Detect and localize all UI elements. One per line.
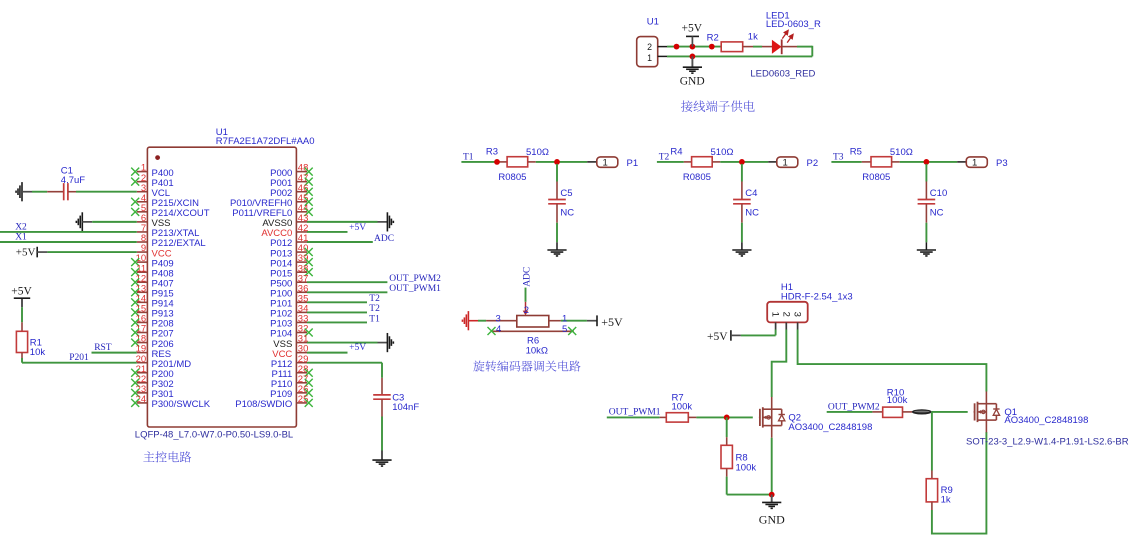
svg-text:C4: C4 — [745, 188, 757, 199]
U1 pin 21 P200 — [131, 364, 173, 380]
ground (C3) — [372, 417, 391, 467]
svg-text:510Ω: 510Ω — [890, 147, 913, 158]
wire R7 to Q2 gate — [688, 416, 753, 418]
potentiometer R6 body — [517, 316, 549, 328]
resistor R3 — [507, 157, 528, 167]
wire T1 to R3 — [461, 161, 507, 163]
U1 pin 47 P001 — [270, 173, 313, 189]
wire RST to RES pin19 — [92, 352, 137, 354]
svg-text:U1: U1 — [647, 17, 659, 28]
svg-text:LED0603_RED: LED0603_RED — [750, 68, 815, 79]
U1 pin 15 P913 — [131, 303, 173, 319]
junction node (R7/R8/gate) — [724, 415, 730, 421]
ground (C1 left) — [16, 182, 47, 201]
U1 pin 14 P914 — [131, 293, 173, 309]
wire Q2 source to ground — [771, 438, 773, 495]
svg-text:1: 1 — [782, 158, 787, 169]
svg-text:X2: X2 — [15, 222, 27, 232]
wire pin1 bottom run — [667, 55, 812, 57]
wire OUT_PWM2 to R10 — [827, 411, 883, 413]
connector P1 — [597, 157, 618, 169]
svg-text:100k: 100k — [887, 395, 908, 406]
U1 pin 19 RES — [136, 344, 171, 360]
U1 pin 34 P102 — [270, 303, 308, 319]
ground (C5) — [547, 223, 566, 256]
svg-text:X1: X1 — [15, 233, 27, 243]
resistor R9 — [926, 471, 937, 511]
svg-text:P1: P1 — [627, 158, 639, 169]
wire R1 to P201/MD pin20 — [22, 358, 137, 363]
U1 pin 3 VCL — [137, 183, 170, 199]
U1 pin 33 P103 — [270, 314, 308, 330]
U1 pin 20 P201/MD — [136, 354, 192, 370]
U1 pin 30 VCC — [272, 344, 308, 360]
ground (C10) — [917, 223, 936, 256]
net label T2 (pin35) — [307, 294, 380, 304]
wire +5V to R1 — [21, 307, 23, 322]
U1 pin 29 P112 — [271, 354, 309, 370]
U1 pin 35 P101 — [270, 293, 308, 309]
wire encoder pin3 — [478, 320, 517, 322]
svg-text:R5: R5 — [850, 147, 862, 158]
ground (VSS pin31) — [307, 333, 393, 352]
svg-text:1k: 1k — [748, 32, 758, 43]
svg-text:ADC: ADC — [522, 267, 532, 287]
U1 pin 26 P109 — [270, 384, 313, 400]
wire LED return loop — [811, 46, 813, 57]
svg-text:10k: 10k — [30, 347, 46, 358]
node X2 wire — [0, 231, 137, 233]
wire H1 pin3 to Q1 drain — [798, 330, 987, 392]
U1 pin 40 P013 — [270, 243, 313, 259]
U1 pin 27 P110 — [271, 374, 313, 390]
U1 pin 12 P407 — [131, 273, 173, 289]
ground (encoder, red) — [462, 311, 478, 330]
U1 pin 38 P015 — [270, 263, 313, 279]
svg-text:GND: GND — [680, 75, 705, 87]
svg-text:R3: R3 — [486, 147, 498, 158]
svg-text:OUT_PWM2: OUT_PWM2 — [389, 274, 441, 284]
svg-text:T1: T1 — [369, 314, 380, 324]
svg-text:R0805: R0805 — [862, 172, 890, 183]
+5V power flag (encoder) — [597, 315, 623, 329]
svg-text:104nF: 104nF — [392, 402, 419, 413]
net label X1 — [15, 233, 27, 243]
ground (VSS pin6) — [76, 212, 136, 231]
LED LED1 — [772, 31, 812, 55]
U1 pin 9 VCC — [137, 243, 172, 259]
svg-text:100k: 100k — [672, 401, 693, 412]
svg-text:OUT_PWM1: OUT_PWM1 — [389, 284, 441, 294]
svg-text:510Ω: 510Ω — [711, 147, 734, 158]
svg-text:100k: 100k — [736, 463, 757, 474]
net label ADC (encoder, vertical) — [522, 267, 532, 287]
U1 pin 45 P010/VREFH0 — [230, 193, 313, 209]
+5V power flag (above R1) — [11, 285, 32, 307]
svg-text:R0805: R0805 — [498, 172, 526, 183]
svg-text:10kΩ: 10kΩ — [526, 345, 548, 356]
resistor R1 — [16, 322, 27, 358]
svg-text:R2: R2 — [707, 32, 719, 43]
wire T2 to R4 — [657, 161, 692, 163]
junction node (F1) — [494, 159, 500, 165]
wire R3 to P1 — [528, 161, 597, 163]
U1 pin 46 P002 — [270, 183, 313, 199]
U1 pin 42 AVCC0 — [261, 223, 308, 239]
U1 pin 44 P011/VREFL0 — [232, 203, 312, 219]
R6 wiper arrow (pin 2) — [523, 302, 529, 316]
U1 pin 4 P215/XCIN — [131, 193, 199, 209]
wire ellipse to Q1 gate — [932, 411, 968, 413]
junction node (F2) — [739, 159, 745, 165]
capacitor C5 — [548, 164, 566, 223]
svg-text:1k: 1k — [941, 495, 951, 506]
wire R9 to Q1 source — [932, 432, 987, 534]
U1 pin 6 VSS — [137, 213, 171, 229]
capacitor C10 — [918, 164, 936, 223]
wire R2 to LED1 — [743, 46, 773, 48]
U1 pin 8 P212/EXTAL — [137, 233, 206, 249]
svg-text:+5V: +5V — [11, 285, 32, 297]
svg-text:510Ω: 510Ω — [526, 147, 549, 158]
no-connect X pin5 — [568, 327, 576, 335]
encoder pins 4-5 tie wire — [492, 330, 574, 332]
U1 pin 16 P208 — [131, 314, 173, 330]
U1 pin 39 P014 — [270, 253, 313, 269]
net label ADC (pin41) — [307, 234, 394, 244]
svg-text:1: 1 — [647, 53, 652, 63]
svg-text:2: 2 — [647, 42, 652, 52]
U1 pin 23 P301 — [131, 384, 173, 400]
wire OUT_PWM1 to R7 — [607, 416, 667, 418]
U1 pin 13 P915 — [131, 283, 173, 299]
svg-text:AO3400_C2848198: AO3400_C2848198 — [1004, 415, 1088, 426]
wire R8 to ground run — [727, 477, 772, 495]
net label OUT_PWM1 (pin36) — [307, 284, 441, 294]
svg-text:C10: C10 — [930, 188, 947, 199]
net label OUT_PWM2 (pin37) — [307, 274, 441, 284]
no-connect X pin4 — [488, 327, 496, 335]
svg-text:P108/SWDIO: P108/SWDIO — [235, 399, 292, 410]
U1 pin 32 P104 — [270, 324, 313, 340]
svg-text:2: 2 — [524, 305, 529, 316]
svg-text:5: 5 — [562, 324, 567, 335]
ground (terminal) — [680, 56, 705, 87]
resistor R4 — [692, 157, 713, 167]
resistor R10 — [883, 407, 903, 417]
svg-text:2: 2 — [780, 312, 791, 317]
ground (AVSS0 pin43) — [307, 212, 393, 231]
net label X2 — [15, 222, 27, 232]
net label OUT_PWM1 — [609, 407, 661, 417]
svg-text:LED-0603_R: LED-0603_R — [766, 19, 821, 30]
U1 pin 10 P409 — [131, 253, 173, 269]
svg-text:25: 25 — [298, 394, 309, 405]
net label T1 — [463, 152, 474, 162]
svg-text:1: 1 — [972, 158, 977, 169]
connector P2 — [777, 157, 798, 169]
svg-text:AO3400_C2848198: AO3400_C2848198 — [788, 422, 872, 433]
U1 pin 5 P214/XCOUT — [131, 203, 210, 219]
wire down to R9 — [931, 412, 933, 471]
svg-text:OUT_PWM1: OUT_PWM1 — [609, 407, 661, 417]
U1 pin 18 P206 — [131, 334, 173, 350]
+5V power flag (H1) — [707, 330, 731, 343]
svg-text:SOT-23-3_L2.9-W1.4-P1.91-LS2.6: SOT-23-3_L2.9-W1.4-P1.91-LS2.6-BR — [966, 436, 1129, 447]
wire pin2 to R2 — [667, 46, 721, 48]
U1 pin 7 P213/XTAL — [137, 223, 200, 239]
net label T2 — [659, 152, 670, 162]
wire ADC to wiper — [525, 288, 527, 302]
svg-text:NC: NC — [560, 208, 574, 219]
svg-text:P300/SWCLK: P300/SWCLK — [152, 399, 211, 410]
U1 pin 17 P207 — [131, 324, 173, 340]
U1 pin 43 AVSS0 — [262, 213, 308, 229]
svg-text:NC: NC — [745, 208, 759, 219]
U1 pin 41 P012 — [270, 233, 308, 249]
U1 pin 25 P108/SWDIO — [235, 394, 312, 410]
wire encoder pin1 to +5V — [549, 320, 597, 322]
junction node (F3) — [924, 159, 930, 165]
U1 pin 36 P100 — [270, 283, 308, 299]
op-amp/MCU U1 body R7FA2E1A72DFL#AA0 — [147, 147, 296, 427]
wire H1 pin2 to Q2 drain — [772, 330, 787, 398]
U1 pin 37 P500 — [270, 273, 308, 289]
svg-text:4: 4 — [496, 324, 501, 335]
svg-text:LQFP-48_L7.0-W7.0-P0.50-LS9.0-: LQFP-48_L7.0-W7.0-P0.50-LS9.0-BL — [135, 430, 293, 441]
wire R4 to P2 — [712, 161, 777, 163]
svg-text:+5V: +5V — [349, 223, 366, 233]
connector H1 — [767, 302, 808, 330]
title 旋转编码器调关电路 — [473, 360, 580, 371]
svg-text:HDR-F-2.54_1x3: HDR-F-2.54_1x3 — [781, 291, 853, 302]
resistor R7 — [666, 413, 688, 422]
wire T3 to R5 — [831, 161, 871, 163]
svg-text:1: 1 — [770, 312, 781, 317]
svg-text:T2: T2 — [659, 152, 670, 162]
+5V power flag (top) — [682, 23, 703, 47]
wire C1 to VCL pin3 — [76, 191, 137, 193]
svg-text:3: 3 — [792, 312, 803, 317]
svg-text:T2: T2 — [369, 294, 380, 304]
U1 pin 31 VSS — [273, 334, 308, 350]
svg-text:GND: GND — [759, 512, 785, 526]
resistor R8 — [721, 437, 732, 476]
svg-text:1: 1 — [602, 158, 607, 169]
ferrite bead ellipse — [912, 409, 932, 414]
svg-text:RST: RST — [94, 343, 112, 353]
resistor R5 — [871, 157, 892, 167]
U1 pin 1 P400 — [131, 163, 173, 179]
svg-text:T3: T3 — [833, 152, 844, 162]
wire junction down to R8 — [726, 417, 728, 437]
junction node (F1) — [554, 159, 560, 165]
resistor R2 — [721, 42, 743, 52]
+5V power flag (AVCC0 pin42) — [307, 223, 366, 233]
transistor Q2 — [759, 397, 785, 438]
wire P112 pin29 to C3 — [307, 363, 382, 378]
connector P3 — [966, 157, 987, 169]
capacitor C3 — [373, 378, 391, 417]
svg-text:+5V: +5V — [349, 343, 366, 353]
wire R5 to P3 — [892, 161, 967, 163]
net label P201 — [69, 353, 89, 363]
title 接线端子供电 — [681, 100, 755, 111]
svg-text:R4: R4 — [670, 147, 682, 158]
node X1 wire — [0, 241, 137, 243]
svg-text:C5: C5 — [560, 188, 572, 199]
svg-text:+5V: +5V — [16, 247, 36, 259]
U1 pin 28 P111 — [272, 364, 313, 380]
wire R10 to ferrite ellipse — [902, 411, 912, 413]
U1 pin 2 P401 — [131, 173, 173, 189]
net label RST — [94, 343, 112, 353]
svg-text:24: 24 — [136, 394, 147, 405]
U1 pin 22 P302 — [131, 374, 173, 390]
svg-text:P3: P3 — [996, 158, 1008, 169]
svg-text:+5V: +5V — [707, 331, 728, 343]
svg-text:P201: P201 — [69, 353, 89, 363]
svg-text:T1: T1 — [463, 152, 474, 162]
capacitor C4 — [733, 164, 751, 223]
U1 pin 48 P000 — [270, 163, 313, 179]
+5V power flag (VCC pin30) — [307, 343, 366, 353]
net label T1 (pin33) — [307, 314, 380, 324]
wire +5V to H1 pin1 — [731, 330, 776, 336]
svg-text:4.7uF: 4.7uF — [61, 175, 85, 186]
U1 pin 24 P300/SWCLK — [131, 394, 211, 410]
svg-text:T2: T2 — [369, 304, 380, 314]
net label T2 (pin34) — [307, 304, 380, 314]
connector U1 (terminal) — [637, 37, 667, 67]
svg-text:ADC: ADC — [374, 234, 394, 244]
capacitor C1 — [47, 183, 76, 200]
ground (Q2) — [759, 495, 785, 527]
svg-text:R7FA2E1A72DFL#AA0: R7FA2E1A72DFL#AA0 — [216, 136, 315, 147]
+5V power flag (VCC pin9) — [16, 247, 137, 259]
svg-text:R0805: R0805 — [683, 172, 711, 183]
svg-text:+5V: +5V — [601, 315, 623, 329]
svg-text:P2: P2 — [807, 158, 819, 169]
ground (C4) — [732, 223, 751, 256]
transistor Q1 — [974, 392, 1000, 433]
svg-text:+5V: +5V — [682, 23, 703, 35]
net label T3 — [833, 152, 844, 162]
U1 pin1 marker dot — [155, 155, 160, 160]
svg-text:NC: NC — [930, 208, 944, 219]
junction dots top wire — [674, 44, 715, 60]
title 主控电路 — [143, 451, 191, 462]
net label OUT_PWM2 — [828, 403, 880, 413]
U1 pin 11 P408 — [131, 263, 173, 279]
junction node (Q2 source/R8) — [769, 492, 775, 498]
